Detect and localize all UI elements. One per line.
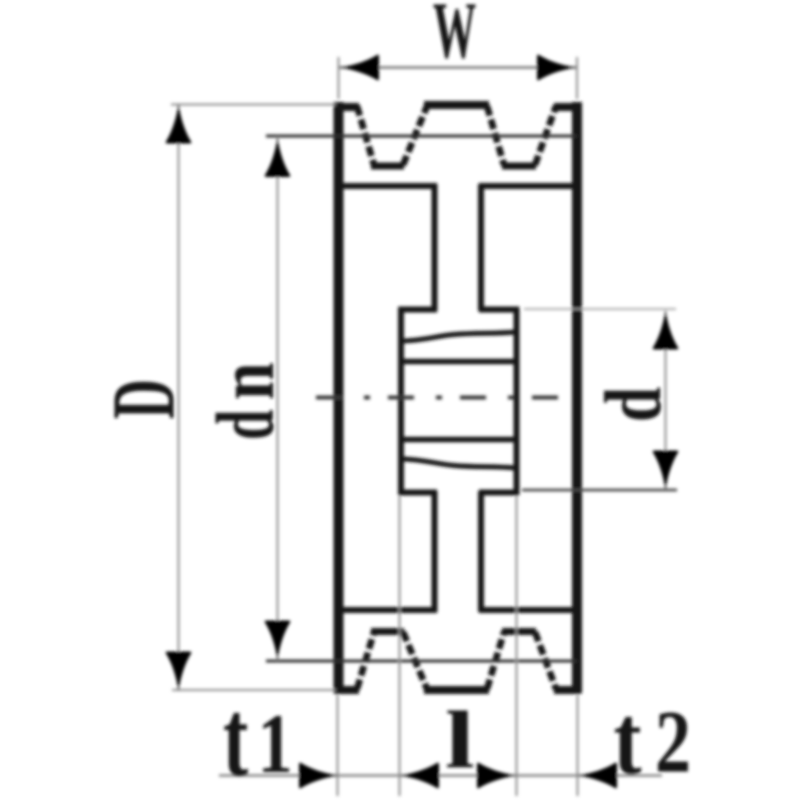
pulley left outer edge: [334, 102, 344, 693]
pitch line top (dn extension): [266, 135, 577, 138]
svg-text:t: t: [614, 684, 642, 794]
D extension line top: [171, 104, 336, 106]
t1 arrow (points right at pulley left edge): [299, 763, 338, 789]
d dimension line: [665, 311, 667, 489]
d arrow bottom: [653, 451, 679, 490]
top rim inner line right: [479, 183, 580, 189]
svg-text:t: t: [223, 678, 249, 799]
web vertical right (bottom): [478, 491, 484, 612]
web vertical left (bottom): [432, 491, 438, 612]
bottom rim inner line right: [479, 607, 580, 613]
pulley right outer edge: [572, 102, 582, 693]
bottom groove slope 1: [357, 632, 374, 689]
bottom rim surface left flat: [334, 686, 359, 694]
bottom dimension line: [219, 774, 662, 776]
bottom tooth flat 1: [371, 628, 404, 635]
bore bottom edge right segment: [479, 490, 519, 496]
bore top edge left segment: [399, 307, 438, 313]
top rim inner line left: [335, 183, 437, 189]
W dimension line: [339, 66, 576, 69]
bushing break line (wavy, lower): [402, 459, 516, 468]
top rim surface right flat: [554, 103, 581, 111]
extension line pulley right edge extended: [577, 695, 579, 796]
extension line hub left extended: [399, 496, 401, 796]
D arrow bottom: [166, 652, 192, 691]
bushing break line (wavy, upper): [402, 332, 516, 341]
dn arrow bottom: [265, 621, 291, 660]
d extension line top: [524, 308, 676, 310]
W extension line right: [576, 57, 578, 99]
svg-text:n: n: [203, 362, 291, 400]
bottom rim surface right flat: [554, 686, 581, 694]
D arrow top: [166, 105, 192, 144]
bore left edge: [398, 307, 404, 495]
bore top edge right segment: [479, 307, 519, 313]
web vertical right (top): [478, 184, 484, 311]
W arrow right: [537, 55, 576, 81]
t2 arrow (points left at pulley right edge): [578, 763, 617, 789]
top groove valley 1: [371, 163, 404, 170]
top groove slope 4: [535, 106, 556, 165]
d extension line bottom: [522, 489, 677, 492]
svg-text:d: d: [589, 387, 678, 422]
svg-text:1: 1: [258, 696, 293, 791]
top groove slope 3: [487, 106, 504, 165]
D extension line bottom: [172, 689, 336, 691]
l arrow left (points left at hub left): [400, 763, 439, 789]
top rim surface left flat: [334, 103, 359, 111]
bore line lower: [400, 437, 517, 443]
W extension line left: [338, 57, 340, 99]
top groove valley 2: [502, 163, 536, 170]
W arrow left: [340, 55, 379, 81]
bottom tooth flat 2: [502, 628, 536, 635]
t1/l/t2 extension line (pulley left edge extended): [337, 695, 339, 796]
center line (axis, dash-dot): [316, 396, 577, 400]
bottom groove slope 4: [535, 632, 556, 689]
svg-text:d: d: [200, 410, 292, 440]
d arrow top: [653, 311, 679, 350]
l arrow right (points right at hub right): [477, 763, 516, 789]
dn arrow top: [265, 138, 291, 177]
bore right edge: [514, 307, 520, 495]
web vertical left (top): [432, 184, 438, 311]
svg-text:l: l: [445, 694, 475, 785]
svg-text:D: D: [94, 379, 194, 419]
bottom rim inner line left: [335, 607, 437, 613]
bottom groove slope 3: [487, 632, 504, 689]
D dimension line: [178, 105, 180, 691]
extension line hub right extended: [516, 496, 518, 796]
svg-text:2: 2: [655, 692, 691, 791]
bottom surface center flat: [424, 686, 489, 694]
svg-text:W: W: [433, 0, 476, 76]
top groove slope 1: [357, 106, 374, 165]
bore bottom edge left segment: [399, 490, 438, 496]
top groove slope 2: [403, 106, 427, 165]
bottom groove slope 2: [403, 632, 427, 689]
dn dimension line: [277, 137, 279, 660]
bore line upper: [400, 359, 517, 365]
top tooth flat: [424, 101, 489, 109]
pitch line bottom (dn extension): [266, 660, 577, 663]
